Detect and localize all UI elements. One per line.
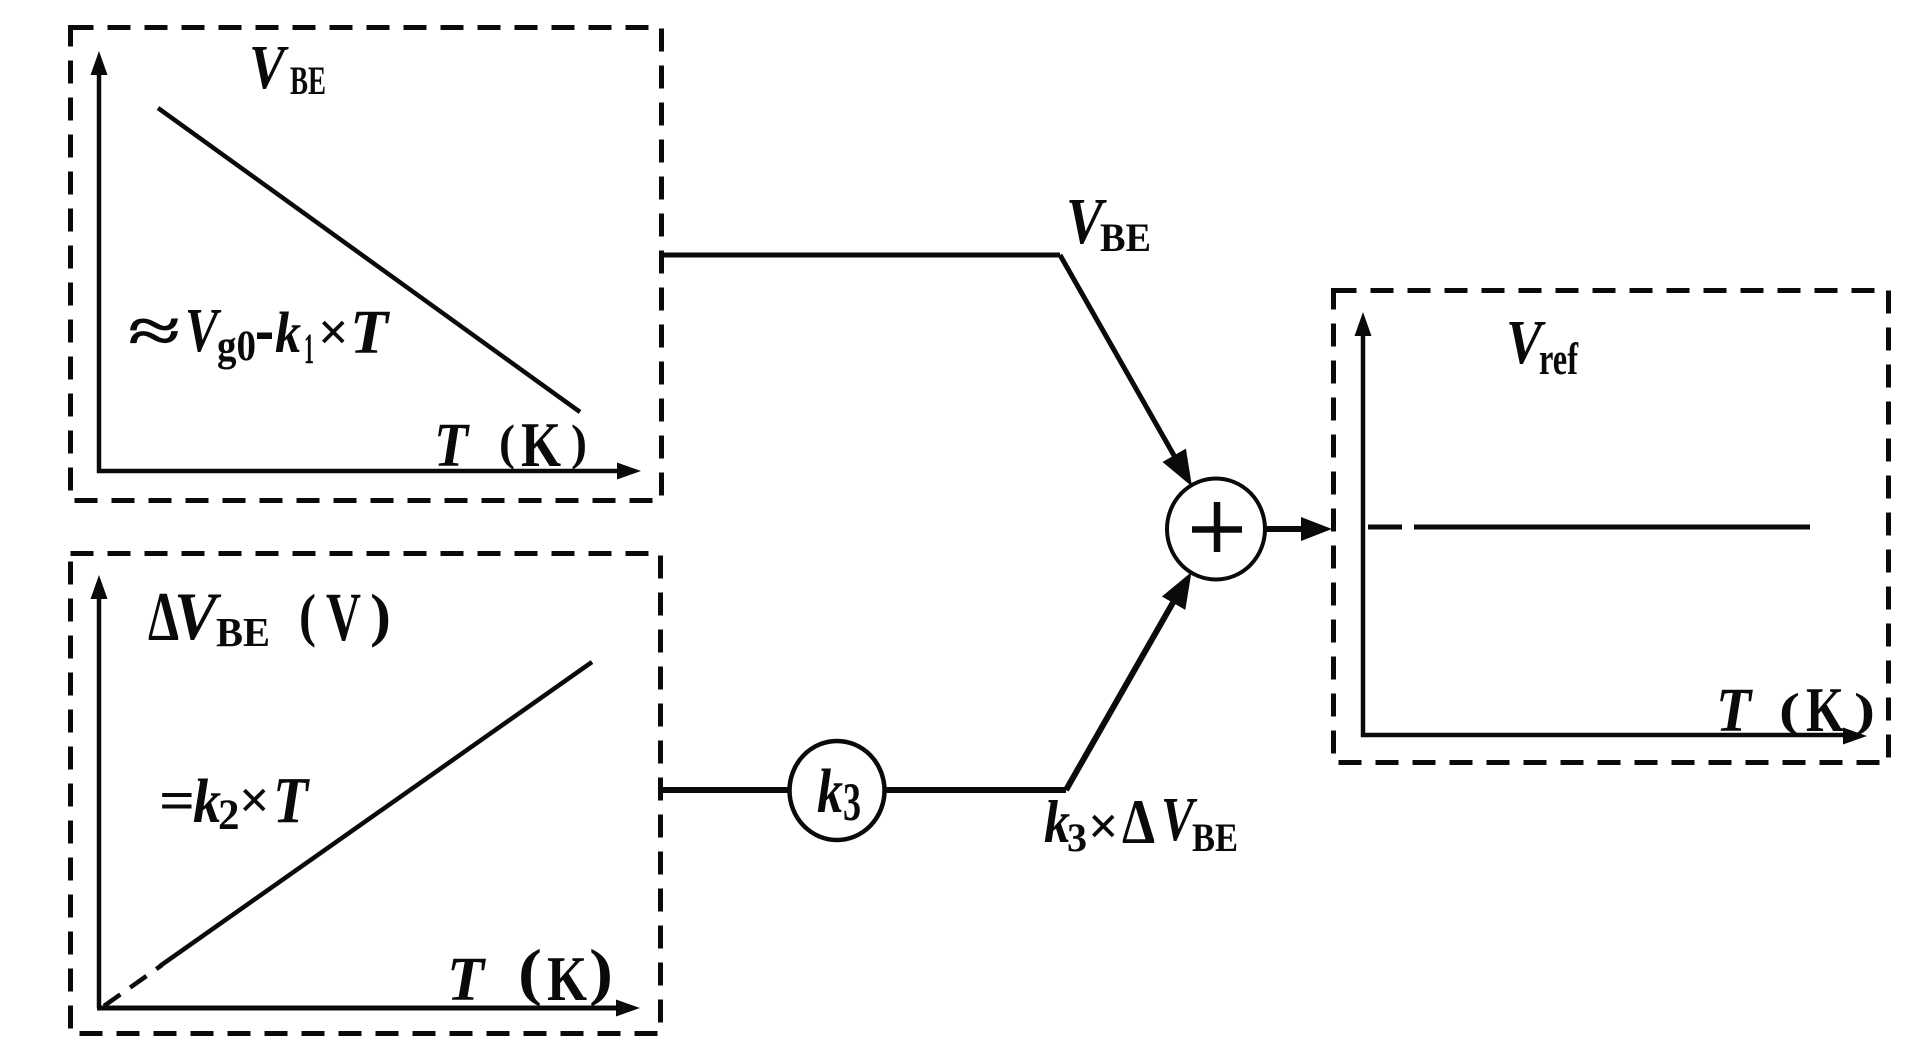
box VBE graph (top-left dashed frame) <box>71 28 662 501</box>
svg-text:×: × <box>1088 796 1119 856</box>
gain block k3 circle <box>790 741 885 840</box>
wire VBE diagonal into summer <box>1060 255 1180 466</box>
wire VBE output horizontal <box>664 253 1060 258</box>
arrowhead into Vref box <box>1301 517 1332 541</box>
Vref graph y-axis <box>1355 312 1372 737</box>
svg-text:T: T <box>1716 677 1753 745</box>
svg-text:T: T <box>447 946 486 1014</box>
svg-text:Δ: Δ <box>1122 787 1155 857</box>
svg-text:=: = <box>159 770 195 833</box>
svg-text:×: × <box>318 302 349 362</box>
svg-text:T: T <box>350 299 390 367</box>
svg-text:V: V <box>249 34 289 102</box>
svg-text:V: V <box>174 578 221 654</box>
plus sign in summer <box>1192 502 1242 552</box>
svg-text:×: × <box>239 770 270 830</box>
svg-text:3: 3 <box>843 772 861 832</box>
svg-text:BE: BE <box>290 58 326 103</box>
svg-text:K: K <box>521 409 561 480</box>
Vref flat line dashed lead-in <box>1368 525 1402 530</box>
svg-text:k: k <box>193 768 221 836</box>
svg-text:(: ( <box>299 582 316 648</box>
VBE decreasing curve <box>158 108 580 412</box>
dVBE graph y-axis <box>91 575 108 1008</box>
dVBE rising line dashed start <box>104 965 162 1006</box>
svg-text:2: 2 <box>218 792 240 839</box>
dVBE graph x-axis <box>97 1000 640 1017</box>
svg-text:T: T <box>273 764 310 837</box>
svg-text:g0: g0 <box>217 323 256 370</box>
box dVBE graph (bottom-left dashed frame) <box>71 554 661 1034</box>
svg-text:1: 1 <box>304 326 314 373</box>
VBE graph x-axis <box>97 463 641 480</box>
svg-text:(: ( <box>1779 684 1800 737</box>
wire summer to Vref box <box>1265 526 1305 532</box>
svg-text:k: k <box>275 300 301 365</box>
hyphen in Vg0-k1xT formula <box>257 333 272 340</box>
svg-text:K: K <box>547 943 587 1014</box>
svg-text:ref: ref <box>1539 333 1578 384</box>
svg-text:): ) <box>370 582 391 648</box>
svg-text:): ) <box>571 414 587 470</box>
Vref graph x-axis <box>1361 728 1867 745</box>
svg-text:T: T <box>434 412 470 480</box>
svg-text:(: ( <box>518 936 542 1007</box>
svg-text:BE: BE <box>1100 215 1151 260</box>
wire k3 to bend <box>884 787 1066 793</box>
svg-text:BE: BE <box>216 609 270 655</box>
wire dVBE output to k3 <box>663 787 790 793</box>
svg-text:V: V <box>326 579 361 655</box>
svg-text:3: 3 <box>1067 815 1087 860</box>
svg-text:): ) <box>1854 684 1875 737</box>
svg-text:BE: BE <box>1192 815 1238 860</box>
Vref flat line <box>1414 525 1810 530</box>
arrowhead into summer (bottom) <box>1162 572 1192 610</box>
svg-text:K: K <box>1806 674 1844 745</box>
wire diagonal into summer (bottom) <box>1066 592 1179 790</box>
summer circle <box>1167 479 1265 580</box>
arrowhead into summer (top) <box>1163 449 1193 487</box>
svg-text:): ) <box>589 936 613 1007</box>
VBE graph y-axis <box>91 51 108 473</box>
dVBE rising line <box>160 662 592 966</box>
svg-text:(: ( <box>499 414 515 470</box>
box Vref graph (right dashed frame) <box>1334 291 1889 763</box>
svg-text:≈: ≈ <box>128 296 180 366</box>
svg-text:k: k <box>817 758 843 826</box>
